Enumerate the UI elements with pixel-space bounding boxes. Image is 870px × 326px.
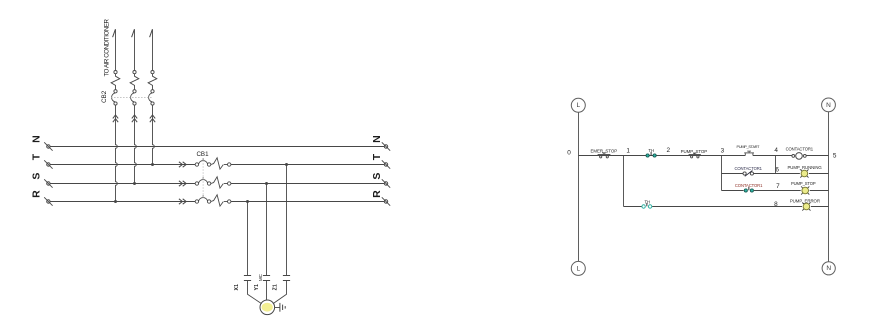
svg-text:PUMP_START: PUMP_START (737, 145, 761, 149)
svg-text:3: 3 (721, 147, 725, 154)
source circle N top (822, 98, 836, 112)
label Y1 (254, 284, 260, 290)
contact PUMP_START (NO pushbutton) (744, 151, 754, 155)
svg-text:PUMP_STOP: PUMP_STOP (791, 181, 816, 186)
wire row6 segment c (809, 173, 829, 175)
wire row6 segment a (722, 173, 744, 175)
coil CONTACTOR1 (792, 153, 806, 160)
contact TH NC (row8) (642, 203, 652, 208)
wire tap 1 down (247, 202, 249, 276)
svg-text:0: 0 (567, 150, 571, 157)
svg-text:TH: TH (648, 148, 654, 153)
label TH (row8) (645, 200, 651, 205)
wire bus R (50, 201, 384, 203)
wire row8 segment b (652, 206, 802, 208)
CB1 pole S (195, 177, 211, 185)
label PUMP_RUNNING (787, 165, 822, 170)
wire bus N (50, 146, 384, 148)
svg-text:Y1: Y1 (254, 284, 260, 290)
fuse F2 (squiggle) (130, 71, 139, 93)
junction dot tap 3 (285, 163, 288, 166)
contact CONTACTOR1 NC (row7) (744, 187, 753, 192)
svg-text:PUMP_STOP: PUMP_STOP (681, 149, 708, 154)
chevron arrows T row (179, 162, 186, 167)
svg-text:CONTACTOR1: CONTACTOR1 (735, 183, 763, 188)
wire row7 segment c (810, 190, 829, 192)
label CONTACTOR1 (row7) (735, 183, 763, 188)
wire number 1 (626, 148, 630, 155)
MC contact bars 2 (263, 276, 270, 281)
svg-text:6: 6 (775, 167, 779, 174)
label PUMP_STOP (681, 149, 708, 154)
rail L (left) (578, 112, 580, 261)
bus T (left terminal) (44, 160, 52, 168)
svg-text:TH: TH (645, 200, 651, 205)
svg-text:S: S (30, 173, 42, 180)
label CONTACTOR1 (row6) (734, 166, 762, 171)
MC contact bars 3 (283, 276, 290, 281)
label R right (371, 190, 383, 198)
wire number 3 (721, 147, 725, 154)
svg-text:T: T (371, 153, 383, 160)
fuse F3 (squiggle) (148, 71, 157, 93)
svg-text:7: 7 (776, 183, 780, 190)
contact TH (NC, rung) (646, 152, 656, 157)
fuse squiggle T (211, 158, 231, 169)
fuse squiggle S (211, 177, 231, 188)
svg-text:5: 5 (833, 152, 837, 159)
junction dot tap 2 (265, 182, 268, 185)
CB1 mechanical link (dashed) (202, 160, 204, 199)
wire branch node4 down (775, 156, 777, 174)
label N right (371, 135, 383, 143)
bus T (right terminal) (382, 160, 390, 168)
label CB1 (196, 151, 209, 158)
label N left (30, 135, 42, 143)
svg-text:PUMP_ERROR: PUMP_ERROR (790, 199, 820, 204)
CB2 pole 1 (112, 93, 118, 105)
feeder chevron arrows 3 (150, 115, 155, 122)
chevron arrows S row (179, 181, 186, 186)
label TH (rung) (648, 148, 654, 153)
wire row7 segment b (754, 190, 801, 192)
wire number 8 (774, 201, 778, 208)
fuse squiggle R (211, 195, 231, 206)
wire branch node1 down (623, 156, 625, 207)
wire number 5 (833, 152, 837, 159)
label T left (30, 153, 42, 160)
svg-text:R: R (371, 190, 383, 198)
svg-text:X1: X1 (234, 284, 240, 290)
contact EMER_STOP (NC pushbutton) (598, 153, 611, 158)
contact PUMP_STOP (NC pushbutton) (689, 153, 701, 158)
source circle L top (571, 98, 585, 112)
junction dot feeder 1 (114, 200, 117, 203)
junction dot feeder 2 (133, 182, 136, 185)
source circle L bottom (571, 261, 585, 275)
lamp PUMP_RUNNING (800, 169, 808, 177)
ground symbol (275, 303, 286, 312)
wire feeder 2 down to bus (135, 105, 137, 183)
junction dot feeder 3 (151, 163, 154, 166)
wire Y1 to motor (266, 281, 268, 301)
wire feeder 3 down to bus (153, 105, 155, 164)
motor M (highlighted) (260, 300, 275, 315)
wire row7 segment a (722, 190, 744, 192)
feeder arrow 3 (150, 29, 153, 70)
svg-text:EMER_STOP: EMER_STOP (591, 149, 618, 154)
wire row8 segment c (811, 206, 829, 208)
wire branch node3 down (721, 156, 723, 191)
wire number 0 (567, 150, 571, 157)
feeder chevron arrows 2 (132, 115, 137, 122)
label CONTACTOR1 (coil) (786, 147, 814, 152)
label S right (371, 173, 383, 180)
wire X1 to motor (248, 281, 262, 304)
wire number 6 (775, 167, 779, 174)
junction dot tap 1 (246, 200, 249, 203)
svg-text:T: T (30, 153, 42, 160)
svg-text:8: 8 (774, 201, 778, 208)
wire Z1 to motor (273, 281, 287, 304)
lamp PUMP_ERROR (802, 202, 810, 210)
bus R (left terminal) (44, 197, 52, 205)
svg-text:CONTACTOR1: CONTACTOR1 (786, 147, 814, 152)
label PUMP_STOP (row7) (791, 181, 816, 186)
label MC (258, 273, 263, 281)
svg-text:L: L (576, 102, 580, 109)
wire bus S (50, 183, 384, 185)
lamp PUMP_STOP (row7) (801, 186, 809, 194)
fuse F1 (squiggle) (111, 71, 120, 93)
wire rung segment f (806, 155, 828, 157)
label CB2 (101, 90, 108, 103)
feeder arrow 2 (132, 29, 135, 70)
svg-text:1: 1 (626, 148, 630, 155)
CB2 pole 2 (131, 93, 137, 105)
bus N (right terminal) (382, 142, 390, 150)
wire tap 2 down (266, 184, 268, 276)
wire rung segment e (753, 155, 792, 157)
wire bus T (50, 164, 384, 166)
svg-text:TO AIR CONDITIONER: TO AIR CONDITIONER (104, 18, 111, 76)
label PUMP_ERROR (790, 199, 820, 204)
bus N (left terminal) (44, 142, 52, 150)
svg-text:4: 4 (774, 147, 778, 154)
bus R (right terminal) (382, 197, 390, 205)
CB2 mechanical link (dashed) (111, 96, 153, 98)
svg-text:N: N (371, 135, 383, 143)
feeder arrow 1 (113, 29, 116, 70)
label Z1 (273, 284, 279, 290)
svg-text:N: N (826, 265, 831, 272)
wire row8 segment a (624, 206, 642, 208)
CB1 pole R (195, 195, 211, 203)
svg-text:CONTACTOR1: CONTACTOR1 (734, 166, 762, 171)
wire number 4 (774, 147, 778, 154)
svg-text:N: N (826, 102, 831, 109)
label T right (371, 153, 383, 160)
label EMER_STOP (591, 149, 618, 154)
CB1 pole T (195, 158, 211, 166)
svg-text:N: N (30, 135, 42, 143)
svg-text:S: S (371, 173, 383, 180)
svg-text:L: L (576, 265, 580, 272)
rail N (right) (828, 112, 830, 262)
wire number 2 (667, 147, 671, 154)
wire rung segment a (579, 155, 746, 157)
svg-text:MC: MC (258, 273, 263, 281)
wire row6 segment b (754, 173, 800, 175)
svg-text:CB1: CB1 (196, 151, 209, 158)
svg-text:Z1: Z1 (273, 284, 279, 290)
svg-text:PUMP_RUNNING: PUMP_RUNNING (787, 165, 822, 170)
label PUMP_START (737, 145, 761, 149)
svg-text:R: R (30, 190, 42, 198)
feeder chevron arrows 1 (113, 115, 118, 122)
contact CONTACTOR1 NO (row6) (743, 171, 754, 177)
bus S (right terminal) (382, 179, 390, 187)
label X1 (234, 284, 240, 290)
svg-text:CB2: CB2 (101, 90, 108, 103)
label: TO AIR CONDITIONER (104, 18, 111, 76)
label S left (30, 173, 42, 180)
wire number 7 (776, 183, 780, 190)
MC contact bars 1 (244, 276, 251, 281)
label R left (30, 190, 42, 198)
chevron arrows R row (179, 199, 186, 204)
svg-text:2: 2 (667, 147, 671, 154)
wire feeder 1 down to bus (116, 105, 118, 201)
bus S (left terminal) (44, 179, 52, 187)
source circle N bottom (822, 262, 835, 275)
CB2 pole 3 (149, 93, 155, 105)
wire tap 3 down (286, 165, 288, 276)
